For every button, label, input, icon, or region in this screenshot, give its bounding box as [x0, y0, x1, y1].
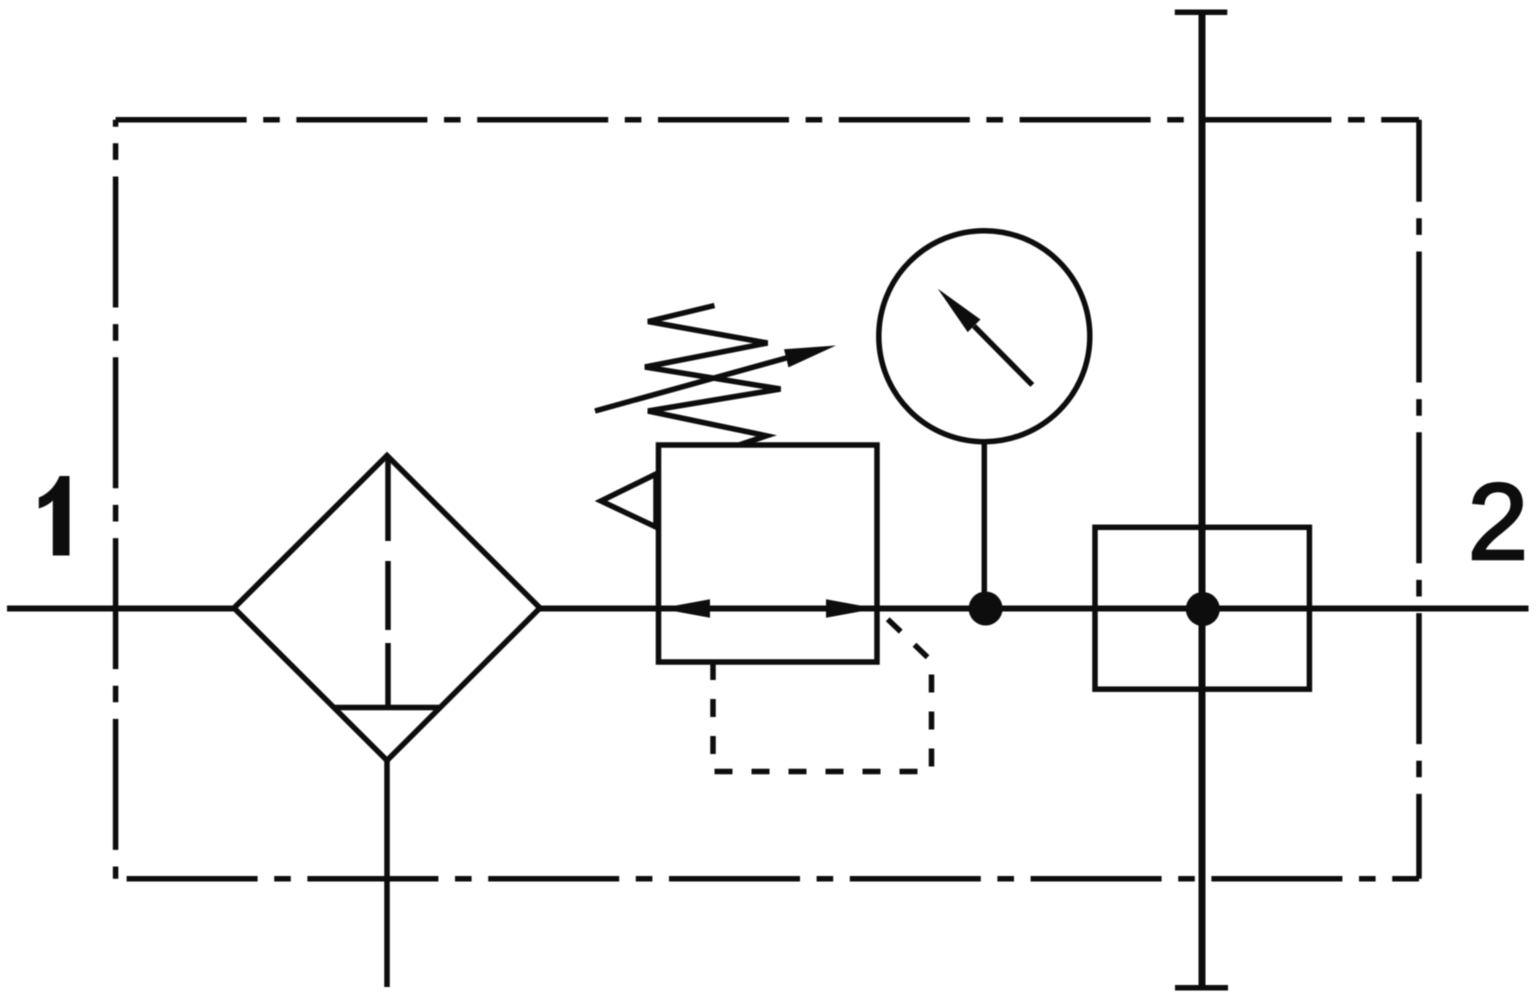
regulator adjustment arrow	[595, 358, 788, 412]
condensate separator chord	[334, 705, 440, 711]
junction dot at gauge tap	[969, 592, 1003, 626]
wire: vertical branch line	[1199, 15, 1206, 986]
branch line top terminal tick	[1175, 9, 1228, 15]
wire: flow line from filter outlet to port 2	[537, 606, 1529, 612]
regulator relieving vent triangle	[601, 474, 656, 527]
regulator setting spring	[645, 306, 781, 446]
regulator flow arrow left	[660, 599, 711, 618]
svg-text:2: 2	[1468, 461, 1529, 583]
enclosure dash-dot boundary (service unit frame)	[116, 120, 1419, 879]
regulator R1 body	[659, 445, 878, 662]
branch line bottom terminal tick	[1175, 985, 1228, 991]
regulator flow arrow right	[826, 599, 877, 618]
distribution block body	[1095, 527, 1309, 689]
wire: condensate drain	[384, 761, 390, 988]
pressure gauge G1	[879, 231, 1090, 442]
junction dot at distribution block	[1186, 592, 1220, 626]
gauge needle	[974, 326, 1032, 385]
filter F1 (diamond)	[234, 456, 540, 761]
filter element dashed centre line	[385, 456, 391, 707]
port label 1	[39, 476, 70, 556]
wire: gauge stem	[982, 440, 988, 609]
wire: flow line from port 1 to filter inlet	[7, 606, 237, 612]
pilot control dashed line	[713, 610, 932, 772]
